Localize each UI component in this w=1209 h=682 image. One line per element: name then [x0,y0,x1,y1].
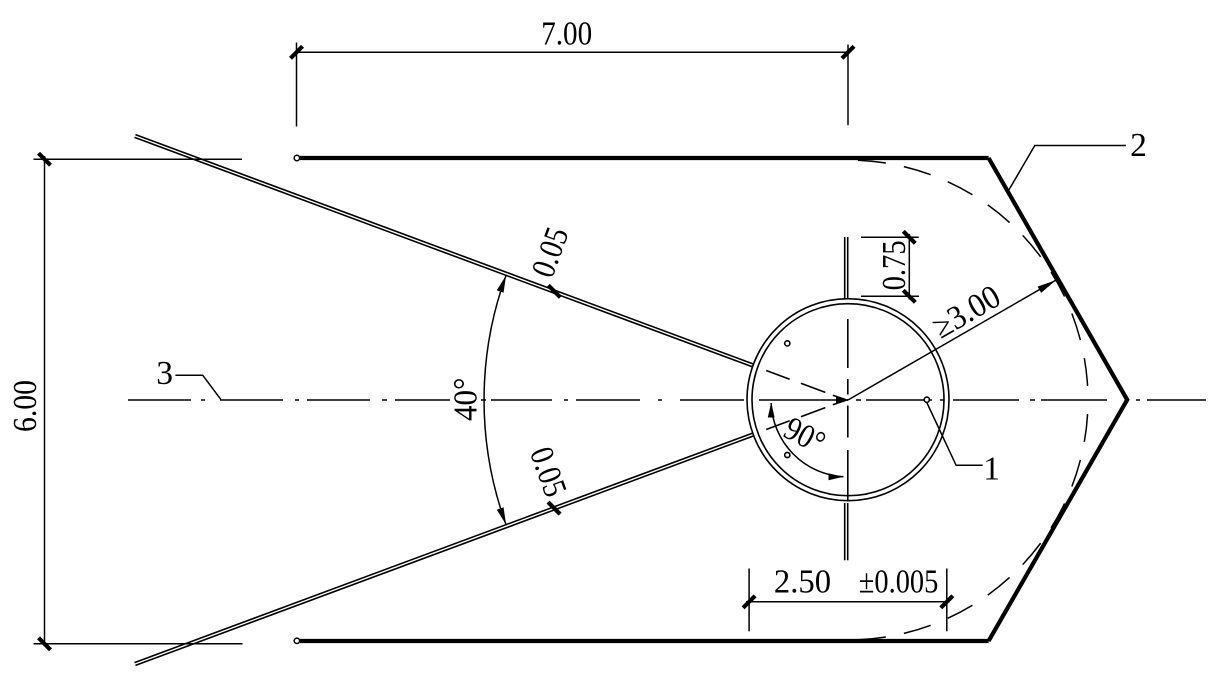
reticle circle outer [747,299,949,501]
svg-text:6.00: 6.00 [7,380,44,432]
dashed arc (protective glass outline) [848,160,1088,400]
dimension 0.75 [861,231,919,302]
dimension >=3.00 radius [836,278,1056,404]
dashed extension of upper slanted line to centre [766,371,848,401]
reticle circle inner [752,304,944,496]
dimension 7.00 [291,16,855,127]
small hole lower-left [785,452,790,457]
vertical etched double line upper segment [845,237,848,299]
leader and label 1 [927,403,1000,488]
right chevron edge of frame 2 [989,158,1128,641]
svg-text:3: 3 [156,355,173,392]
dimension 90 degrees arc [768,403,844,481]
svg-text:40°: 40° [447,378,484,421]
dimension 6.00 [7,153,242,650]
dimension 2.50 +/-0.005 [743,563,953,631]
leader and label 3 [156,355,221,400]
line width spec 0.05 upper [525,223,577,298]
vertical etched double line lower segment [845,503,848,560]
horizontal dash-dot centreline 3 [128,399,1206,401]
svg-text:±0.005: ±0.005 [859,563,939,600]
dimension 40 degrees arc [447,276,506,525]
svg-text:0.75: 0.75 [876,240,913,290]
svg-text:1: 1 [983,451,1000,488]
svg-text:2: 2 [1130,127,1147,164]
dashed extension of lower slanted line to centre [766,400,848,430]
svg-text:7.00: 7.00 [541,16,592,53]
leader and label 2 [1009,127,1147,190]
lower slanted etched double line [135,433,754,665]
top outline line of frame 2 [294,155,988,160]
small hole upper-left [785,341,790,346]
vertical dashed centreline in circle [847,319,849,502]
upper slanted etched double line [135,135,754,367]
svg-text:2.50: 2.50 [774,563,831,600]
line width spec 0.05 lower [522,442,574,514]
small hole 1 right [924,397,929,402]
bottom outline line of frame 2 [294,638,988,643]
